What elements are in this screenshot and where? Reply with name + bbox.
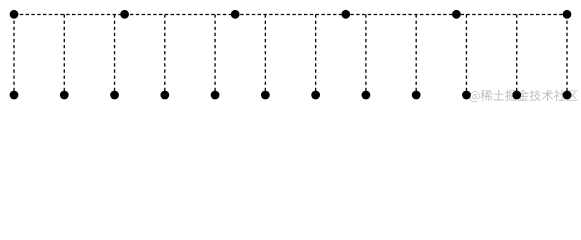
wire: vertical dashed line 5 xyxy=(214,15,216,96)
node: bottom sample dot 11 xyxy=(512,91,521,100)
wire: vertical dashed line 3 xyxy=(114,15,116,96)
node: top sample dot 1 xyxy=(10,10,19,19)
wire: vertical dashed line 9 xyxy=(415,15,417,96)
node: bottom sample dot 5 xyxy=(211,91,220,100)
wire: vertical dashed line 4 xyxy=(164,15,166,96)
watermark text "@稀土掘金技术社区" xyxy=(470,90,578,103)
node: bottom sample dot 1 xyxy=(10,91,19,100)
node: top sample dot 5 xyxy=(452,10,461,19)
wire: vertical dashed line 7 xyxy=(315,15,317,96)
node: bottom sample dot 3 xyxy=(110,91,119,100)
wire: vertical dashed line 1 xyxy=(13,15,15,96)
node: bottom sample dot 2 xyxy=(60,91,69,100)
wire: vertical dashed line 10 xyxy=(465,15,467,96)
node: bottom sample dot 4 xyxy=(160,91,169,100)
wire: top horizontal dashed line xyxy=(14,14,567,16)
node: bottom sample dot 6 xyxy=(261,91,270,100)
node: bottom sample dot 8 xyxy=(362,91,371,100)
node: bottom sample dot 7 xyxy=(311,91,320,100)
node: bottom sample dot 12 xyxy=(563,91,572,100)
wire: vertical dashed line 2 xyxy=(63,15,65,96)
node: bottom sample dot 10 xyxy=(462,91,471,100)
wire: vertical dashed line 12 xyxy=(566,15,568,96)
node: top sample dot 6 xyxy=(563,10,572,19)
wire: vertical dashed line 6 xyxy=(264,15,266,96)
node: top sample dot 4 xyxy=(341,10,350,19)
node: top sample dot 3 xyxy=(231,10,240,19)
node: bottom sample dot 9 xyxy=(412,91,421,100)
node: top sample dot 2 xyxy=(120,10,129,19)
wire: vertical dashed line 8 xyxy=(365,15,367,96)
wire: vertical dashed line 11 xyxy=(516,15,518,96)
